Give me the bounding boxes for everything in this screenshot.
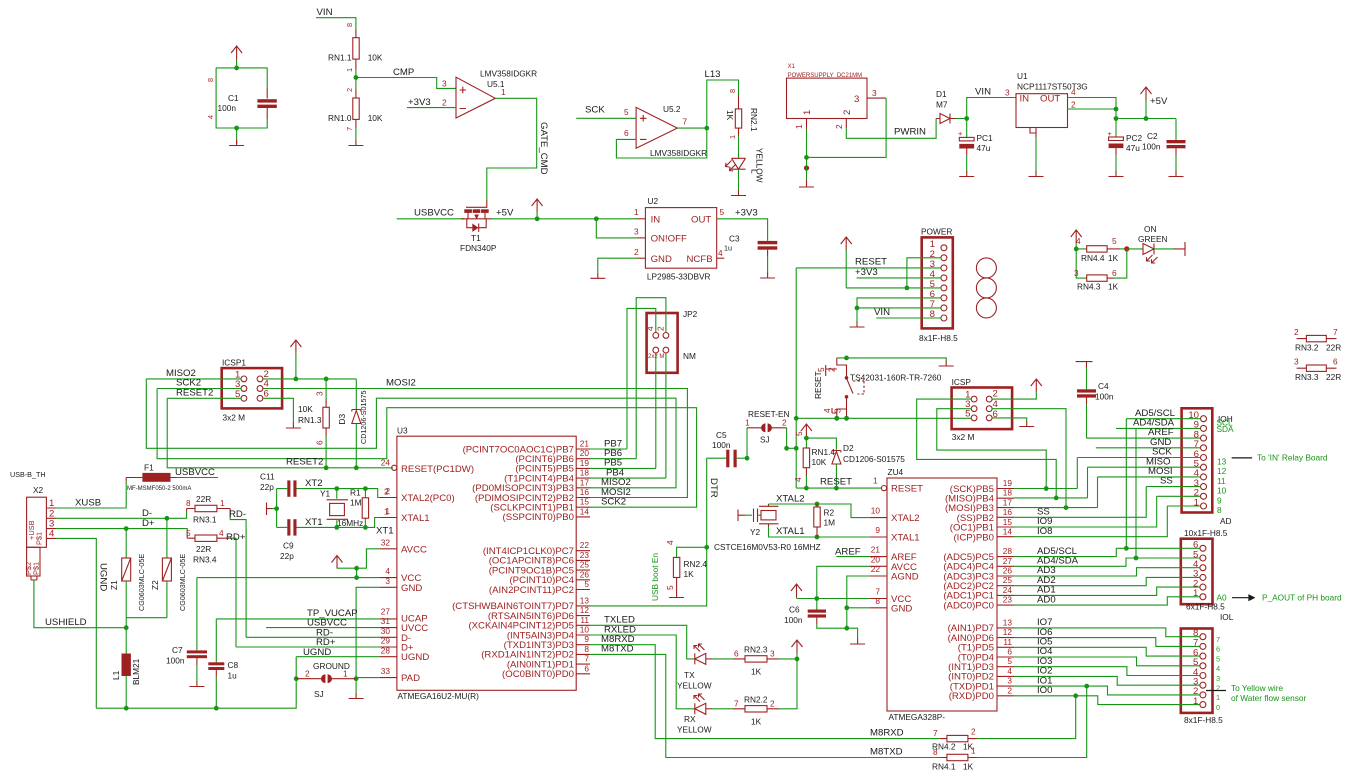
capacitor C2 100n <box>1142 119 1186 173</box>
svg-text:AD0: AD0 <box>1037 594 1056 605</box>
wire GND pin3 U3 <box>354 587 380 681</box>
net RD+ label <box>226 532 246 543</box>
resistor R2 1M <box>814 504 835 537</box>
resistor RN4.2 1K <box>932 727 977 752</box>
svg-text:R1: R1 <box>350 488 361 498</box>
svg-text:USB-B_TH: USB-B_TH <box>10 470 46 479</box>
wire U2 pin3 ON!OFF <box>596 219 645 238</box>
svg-text:8x1F-H8.5: 8x1F-H8.5 <box>1184 715 1223 725</box>
svg-text:RN3.2: RN3.2 <box>1295 343 1319 353</box>
svg-text:3: 3 <box>315 391 325 396</box>
resistor RN4.4 1K <box>1071 230 1127 263</box>
svg-text:3: 3 <box>1007 676 1012 686</box>
svg-text:1: 1 <box>634 207 639 217</box>
svg-text:5: 5 <box>816 367 826 372</box>
svg-text:6: 6 <box>584 663 589 673</box>
svg-text:U3: U3 <box>397 426 408 436</box>
svg-text:RN2.2: RN2.2 <box>744 694 768 704</box>
svg-text:RN3.1: RN3.1 <box>193 515 217 525</box>
ground C7 <box>189 681 204 687</box>
net USHIELD <box>34 580 126 628</box>
LED ON GREEN <box>1127 224 1185 263</box>
svg-text:1K: 1K <box>725 110 735 121</box>
svg-text:XTAL1: XTAL1 <box>401 513 430 524</box>
LED RX YELLOW <box>677 694 712 735</box>
svg-text:+: + <box>958 129 962 138</box>
svg-text:ICSP1: ICSP1 <box>222 358 246 368</box>
svg-text:1: 1 <box>971 746 976 756</box>
svg-text:POWER: POWER <box>921 227 952 237</box>
svg-text:10K: 10K <box>812 457 827 467</box>
svg-text:PC1: PC1 <box>977 133 994 143</box>
net DTR vertical <box>590 458 719 606</box>
connector POWER 8x1F-H8.5 <box>919 227 958 344</box>
wire RN4.1 to IO1 <box>977 686 1087 757</box>
wire X1 pin3 to pin1 ground loop <box>804 98 886 160</box>
svg-text:21: 21 <box>580 439 590 449</box>
wire IO8 to AD pin1 <box>1014 506 1201 537</box>
varistor Z1 CG0603MLC-05E <box>109 529 146 618</box>
note To Yellow wire <box>1206 683 1307 703</box>
net USBVCC at UVCC <box>266 618 380 629</box>
svg-text:Y2: Y2 <box>750 527 761 537</box>
net +3V3 from U2 OUT <box>717 207 768 241</box>
wire M8TXD long <box>590 654 940 757</box>
svg-text:IN: IN <box>651 214 661 225</box>
wire PB6 row <box>590 458 636 460</box>
svg-text:ZU4: ZU4 <box>888 467 904 477</box>
net USBVCC at F1 <box>175 467 218 478</box>
op-amp U5.2 <box>624 104 707 158</box>
svg-text:D+: D+ <box>142 518 155 529</box>
svg-text:GND: GND <box>651 254 672 265</box>
svg-text:1: 1 <box>343 669 348 679</box>
svg-text:USHIELD: USHIELD <box>45 617 87 628</box>
svg-text:OUT: OUT <box>1040 94 1060 105</box>
svg-text:GATE_CMD: GATE_CMD <box>538 122 549 175</box>
svg-text:3: 3 <box>1074 268 1079 278</box>
svg-text:DTR: DTR <box>708 478 719 498</box>
svg-text:21: 21 <box>871 545 881 555</box>
svg-text:22R: 22R <box>1326 343 1341 353</box>
ground below RN1.0 <box>348 128 363 146</box>
svg-text:C1: C1 <box>228 93 239 103</box>
svg-text:1K: 1K <box>963 762 974 772</box>
wire RN4.2 to IO0 <box>977 696 1076 739</box>
wire IO2 <box>1014 676 1200 685</box>
net SCK2 label at ICSP1 <box>157 378 241 389</box>
net +5V wire to U2 <box>491 208 637 222</box>
resistor RN3.3 22R <box>1294 357 1341 382</box>
net TP_VUCAP <box>216 608 380 619</box>
svg-text:5: 5 <box>794 431 804 436</box>
svg-text:5: 5 <box>665 585 675 590</box>
svg-text:To 'IN' Relay Board: To 'IN' Relay Board <box>1257 453 1328 463</box>
svg-text:RN2.1: RN2.1 <box>749 108 759 132</box>
svg-text:4: 4 <box>1007 666 1012 676</box>
svg-text:12: 12 <box>1217 466 1227 476</box>
svg-text:F1: F1 <box>144 463 154 473</box>
wire +5V rail right <box>1116 116 1176 121</box>
svg-text:2: 2 <box>770 698 775 708</box>
svg-text:6: 6 <box>1007 647 1012 657</box>
svg-text:XTAL2: XTAL2 <box>776 494 805 505</box>
ground C2 <box>1169 171 1184 177</box>
svg-text:6: 6 <box>624 128 629 138</box>
svg-text:1u: 1u <box>228 671 238 681</box>
svg-text:RN4.1: RN4.1 <box>932 762 956 772</box>
svg-text:ATMEGA328P-: ATMEGA328P- <box>889 712 946 722</box>
svg-text:4: 4 <box>645 326 655 331</box>
svg-text:7: 7 <box>584 654 589 664</box>
svg-text:YELLOW: YELLOW <box>755 148 765 183</box>
svg-text:4: 4 <box>1071 87 1076 97</box>
svg-text:22R: 22R <box>1326 372 1341 382</box>
svg-text:8: 8 <box>728 89 737 93</box>
svg-text:U2: U2 <box>648 196 659 206</box>
svg-text:19: 19 <box>1003 478 1013 488</box>
resistor RN2.3 1K <box>712 645 799 677</box>
supply +5V arrow <box>1141 87 1168 119</box>
net labels ZU4 right <box>1037 507 1079 696</box>
svg-text:4: 4 <box>206 115 215 119</box>
svg-text:10x1F-H8.5: 10x1F-H8.5 <box>1184 528 1228 538</box>
wire IO9 to AD pin2 <box>1014 496 1201 527</box>
supply arrow AVCC <box>332 556 343 569</box>
resistor R1 1M <box>350 488 369 528</box>
capacitor C7 100n <box>166 578 207 682</box>
svg-text:XTAL1: XTAL1 <box>776 526 805 537</box>
wire VCC row U3 <box>197 577 380 579</box>
svg-text:1K: 1K <box>751 716 762 726</box>
svg-text:0: 0 <box>1216 703 1220 712</box>
svg-text:MOSI2: MOSI2 <box>386 378 416 389</box>
wire AD4/SDA from ZU4 <box>1014 428 1200 566</box>
svg-text:7: 7 <box>1216 635 1220 644</box>
svg-text:2: 2 <box>1071 100 1076 110</box>
svg-text:C3: C3 <box>729 234 740 244</box>
svg-text:1: 1 <box>1216 693 1220 702</box>
svg-text:22p: 22p <box>260 482 274 492</box>
svg-text:2: 2 <box>971 727 976 737</box>
svg-text:8: 8 <box>930 309 935 320</box>
net XTAL1 of ZU4 <box>769 526 871 539</box>
capacitor PC1 47u <box>958 119 993 173</box>
svg-text:1: 1 <box>873 476 878 486</box>
resistor RN2.4 1K USB boot En <box>650 540 709 601</box>
wire POWER pin5 +5V <box>846 286 941 291</box>
svg-text:3: 3 <box>770 649 775 659</box>
supply arrow RN1.4 <box>801 424 812 448</box>
svg-text:SS: SS <box>1160 476 1173 487</box>
svg-text:C2: C2 <box>1147 131 1158 141</box>
svg-text:PAD: PAD <box>401 673 420 684</box>
supply arrow VCC ZU4 <box>791 584 802 599</box>
svg-text:6: 6 <box>1112 268 1117 278</box>
svg-text:3: 3 <box>634 227 639 237</box>
svg-text:C8: C8 <box>228 660 239 670</box>
svg-text:VIN: VIN <box>317 7 333 18</box>
svg-text:100n: 100n <box>218 103 237 113</box>
svg-text:VIN: VIN <box>874 307 890 318</box>
svg-text:D3: D3 <box>337 414 347 425</box>
supply arrow above C1 <box>231 46 242 70</box>
wire ICSP pad1 MISO <box>917 399 1059 500</box>
svg-text:PC2: PC2 <box>1126 133 1143 143</box>
svg-text:16: 16 <box>580 487 590 497</box>
ground below C1 <box>229 126 244 146</box>
svg-text:P_AOUT of PH board: P_AOUT of PH board <box>1262 592 1342 602</box>
svg-text:+3V3: +3V3 <box>408 97 431 108</box>
svg-text:4: 4 <box>793 477 803 482</box>
wire RN1.4 top to D2 <box>806 438 836 450</box>
capacitor C6 100n <box>784 599 849 631</box>
svg-text:USBVCC: USBVCC <box>175 467 215 478</box>
svg-text:10: 10 <box>1217 486 1227 496</box>
svg-text:6: 6 <box>315 440 325 445</box>
svg-text:SJ: SJ <box>314 689 324 699</box>
wire AVCC U3 <box>337 549 380 571</box>
solder jumper RESET-EN SJ <box>745 409 790 445</box>
net RESET into ZU4 <box>796 476 886 491</box>
capacitor C11 22p <box>260 472 337 528</box>
inductor L1 BLM21 <box>111 628 141 711</box>
svg-text:RN2.3: RN2.3 <box>744 645 768 655</box>
wire U5.2 feedback loop <box>616 128 706 158</box>
svg-text:GND: GND <box>891 603 912 614</box>
svg-text:27: 27 <box>1003 556 1013 566</box>
svg-text:MF-MSMF050-2 500mA: MF-MSMF050-2 500mA <box>127 486 191 492</box>
svg-text:19: 19 <box>580 458 590 468</box>
svg-text:3: 3 <box>442 79 447 89</box>
pin stub U2 NCFB pin4 <box>717 248 725 258</box>
svg-text:100n: 100n <box>784 615 803 625</box>
jumper JP2 <box>645 309 698 373</box>
wire IO1 <box>1014 684 1200 695</box>
wire JP2 pad1 to PB7 <box>627 308 656 449</box>
svg-text:AGND: AGND <box>891 572 919 583</box>
wire MISO2 row to bus <box>146 379 676 488</box>
svg-text:8x1F-H8.5: 8x1F-H8.5 <box>919 333 958 343</box>
net AREF of ZU4 <box>835 547 870 558</box>
svg-text:U1: U1 <box>1017 71 1028 81</box>
wire IO4 <box>1014 657 1200 666</box>
svg-text:SCK2: SCK2 <box>601 497 626 508</box>
LED TX YELLOW <box>677 644 712 691</box>
svg-text:RD-: RD- <box>229 509 246 520</box>
svg-text:L: L <box>750 169 760 174</box>
svg-text:P$1: P$1 <box>32 562 41 575</box>
wire ICSP pad3 SCK <box>937 409 1049 491</box>
svg-text:RX: RX <box>684 714 696 724</box>
wire M8RXD long <box>590 645 940 739</box>
connector AD 10x1F-H8.5 <box>1182 408 1232 538</box>
svg-text:7: 7 <box>933 728 938 738</box>
capacitor C1 <box>206 68 277 128</box>
svg-text:LMV358IDGKR: LMV358IDGKR <box>480 69 537 79</box>
wire U5.2 output to L13 <box>677 80 738 131</box>
net MISO2 label at ICSP1 <box>146 368 241 379</box>
svg-text:23: 23 <box>580 550 590 560</box>
svg-text:7: 7 <box>734 698 739 708</box>
op-amp U5.1 <box>442 69 537 119</box>
svg-text:UGND: UGND <box>98 563 109 591</box>
net UGND at U3 <box>294 647 380 681</box>
net UGND vertical <box>56 538 109 708</box>
svg-text:RESET: RESET <box>820 477 852 488</box>
resonator Y2 CSTCE16M0V53-R0 16MHZ <box>714 504 821 552</box>
svg-text:C7: C7 <box>172 645 183 655</box>
supply arrow ICSP1 <box>290 340 301 379</box>
svg-text:4: 4 <box>665 540 675 545</box>
connector X1 POWERSUPPLY_DC21MM <box>787 64 887 129</box>
svg-text:AVCC: AVCC <box>401 544 427 555</box>
svg-text:XTAL1: XTAL1 <box>891 533 920 544</box>
net RESET2 at U3 <box>286 457 323 468</box>
svg-text:NCFB: NCFB <box>687 254 713 265</box>
IC ZU4 ATMEGA328P <box>870 467 1014 722</box>
svg-text:5: 5 <box>720 207 725 217</box>
wire U2 pin2 GND <box>598 247 646 273</box>
svg-text:RN1.0: RN1.0 <box>328 113 352 123</box>
svg-text:RD+: RD+ <box>226 532 246 543</box>
svg-text:3x2 M: 3x2 M <box>223 413 246 423</box>
svg-text:Y1: Y1 <box>320 489 331 499</box>
wire IO0 <box>1014 693 1200 704</box>
wire ICSP pad2 VCC <box>992 379 1042 399</box>
svg-text:1: 1 <box>728 135 737 139</box>
svg-text:22: 22 <box>580 540 590 550</box>
ground U2 <box>590 273 605 279</box>
wire PB5 row <box>590 467 656 469</box>
svg-text:T1: T1 <box>471 233 481 243</box>
svg-text:32: 32 <box>381 537 391 547</box>
svg-text:IN: IN <box>1020 94 1030 105</box>
supply arrow +5V at T1 <box>532 199 543 219</box>
wire RXLED <box>590 635 695 709</box>
svg-text:25: 25 <box>1003 575 1013 585</box>
solder jumper GROUND SJ <box>296 661 356 699</box>
resistor RN1.0 10K <box>328 87 383 132</box>
svg-text:SCK: SCK <box>585 105 605 116</box>
svg-text:3: 3 <box>833 408 843 413</box>
svg-text:22p: 22p <box>280 551 294 561</box>
wire POWER pin6 pin7 gnd <box>855 298 941 322</box>
svg-text:RESET: RESET <box>891 484 923 495</box>
svg-text:100n: 100n <box>1095 392 1114 402</box>
resistor RN3.1 22R <box>186 494 230 525</box>
svg-text:1K: 1K <box>1108 253 1119 263</box>
svg-text:15: 15 <box>1003 517 1013 527</box>
regulator U1 NCP1117ST50T3G <box>1016 71 1088 137</box>
wire AGND ZU4 <box>844 576 870 628</box>
svg-text:RN1.1: RN1.1 <box>328 53 352 63</box>
svg-text:RN3.3: RN3.3 <box>1295 372 1319 382</box>
svg-text:RN4.4: RN4.4 <box>1081 253 1105 263</box>
LED L YELLOW <box>726 136 765 183</box>
svg-text:RESET2: RESET2 <box>286 457 323 468</box>
svg-text:(SSPCINT0)PB0: (SSPCINT0)PB0 <box>503 512 574 523</box>
svg-text:100n: 100n <box>1142 142 1161 152</box>
svg-text:7: 7 <box>683 117 688 127</box>
svg-text:20: 20 <box>871 554 881 564</box>
wire button top to ground <box>834 356 946 421</box>
svg-text:C9: C9 <box>283 541 294 551</box>
svg-text:CG0603MLC-05E: CG0603MLC-05E <box>137 554 146 611</box>
ground POWER <box>850 322 865 328</box>
svg-text:22R: 22R <box>196 494 211 504</box>
svg-text:M8RXD: M8RXD <box>870 728 904 739</box>
ground below LED L <box>731 169 746 195</box>
wire MOSI2 row to ICSP1 <box>263 378 688 498</box>
svg-text:ATMEGA16U2-MU(R): ATMEGA16U2-MU(R) <box>398 691 480 701</box>
svg-text:4: 4 <box>1216 664 1220 673</box>
svg-text:CMP: CMP <box>393 67 414 78</box>
svg-text:1: 1 <box>745 418 750 428</box>
ground ICSP1 <box>286 423 301 429</box>
svg-text:RN4.3: RN4.3 <box>1077 282 1101 292</box>
svg-text:1: 1 <box>345 68 354 72</box>
ground button <box>939 361 954 367</box>
svg-text:8: 8 <box>345 23 354 27</box>
resistor RN1.4 10K <box>793 431 835 491</box>
svg-text:CG0603MLC-05E: CG0603MLC-05E <box>178 554 187 611</box>
svg-text:C11: C11 <box>260 472 275 482</box>
wire node CMP junction <box>354 69 359 87</box>
mounting holes <box>976 258 996 318</box>
svg-text:CSTCE16M0V53-R0 16MHZ: CSTCE16M0V53-R0 16MHZ <box>714 542 821 552</box>
wire JP2 pad4 to PB4 <box>665 353 667 478</box>
svg-text:6: 6 <box>734 649 739 659</box>
svg-text:ON!OFF: ON!OFF <box>651 234 687 245</box>
svg-text:2: 2 <box>1294 327 1299 337</box>
svg-text:5: 5 <box>1112 236 1117 246</box>
svg-text:RESET2: RESET2 <box>176 387 213 398</box>
svg-text:4: 4 <box>49 528 55 539</box>
svg-text:USB boot En: USB boot En <box>650 553 660 601</box>
svg-text:M7: M7 <box>936 100 948 110</box>
svg-text:1K: 1K <box>1108 282 1119 292</box>
diode D3 CD1206-S01575 <box>337 379 368 470</box>
wire JP2 pad2 to PB6 <box>636 298 666 459</box>
wire IO5 <box>1014 647 1200 656</box>
supply arrow TX/RX <box>792 640 803 659</box>
svg-text:RN1.3: RN1.3 <box>298 415 322 425</box>
wire JP2 pad3 to PB5 <box>655 353 657 468</box>
svg-text:2: 2 <box>305 669 310 679</box>
svg-text:RN3.4: RN3.4 <box>193 555 217 565</box>
svg-text:8: 8 <box>933 747 938 757</box>
svg-text:3: 3 <box>872 88 877 98</box>
svg-text:2: 2 <box>442 98 447 108</box>
note To IN Relay Board <box>1232 453 1328 463</box>
svg-text:5: 5 <box>584 579 589 589</box>
svg-text:SDA: SDA <box>1217 424 1235 434</box>
svg-text:2: 2 <box>384 487 389 497</box>
wire ICSP1 pad2 VCC row <box>263 377 356 382</box>
svg-text:15: 15 <box>580 497 590 507</box>
svg-text:PWRIN: PWRIN <box>894 127 926 138</box>
svg-text:17: 17 <box>1003 497 1013 507</box>
svg-text:33: 33 <box>381 666 391 676</box>
svg-text:26: 26 <box>1003 566 1013 576</box>
svg-text:18: 18 <box>580 468 590 478</box>
svg-text:GREEN: GREEN <box>1138 234 1168 244</box>
svg-text:UGND: UGND <box>401 652 429 663</box>
svg-text:NCP1117ST50T3G: NCP1117ST50T3G <box>1017 82 1088 92</box>
connector X2 USB-B_TH <box>10 470 56 580</box>
svg-text:9: 9 <box>875 525 880 535</box>
